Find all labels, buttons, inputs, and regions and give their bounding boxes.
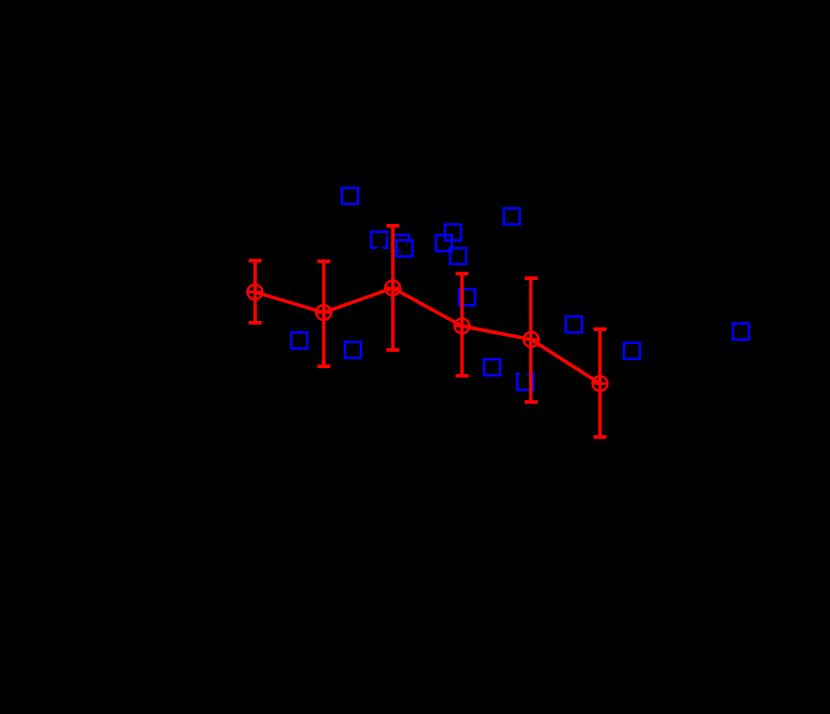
blue square S15: [624, 343, 640, 359]
data point P1: [246, 283, 263, 300]
error bar E5: [525, 278, 538, 402]
blue square S10: [566, 317, 582, 333]
blue square S8: [504, 208, 520, 224]
error bar E6: [594, 329, 607, 437]
error bar E2: [317, 261, 330, 366]
data point P6: [591, 375, 608, 392]
blue square S6: [436, 235, 452, 251]
error bar E3: [386, 226, 399, 350]
blue square S12: [345, 342, 361, 358]
blue square S14 (top edge bitten): [517, 371, 533, 390]
blue square S11: [291, 333, 307, 349]
data point P4: [453, 317, 470, 334]
error bar E4: [456, 274, 469, 376]
blue square S9: [459, 289, 475, 305]
red connecting line: [255, 288, 600, 384]
blue square S4: [396, 240, 412, 256]
blue square S3 (partially occluded): [393, 235, 414, 258]
blue square S1: [342, 188, 358, 204]
blue square S2: [371, 232, 392, 254]
data point P2: [315, 304, 332, 321]
blue square S7: [450, 248, 466, 264]
data point P5: [523, 331, 540, 348]
error bar E1: [249, 261, 262, 323]
blue square S13: [484, 359, 500, 375]
data point P3: [384, 279, 401, 296]
blue square S16: [733, 324, 749, 340]
blue square S5: [445, 224, 461, 240]
